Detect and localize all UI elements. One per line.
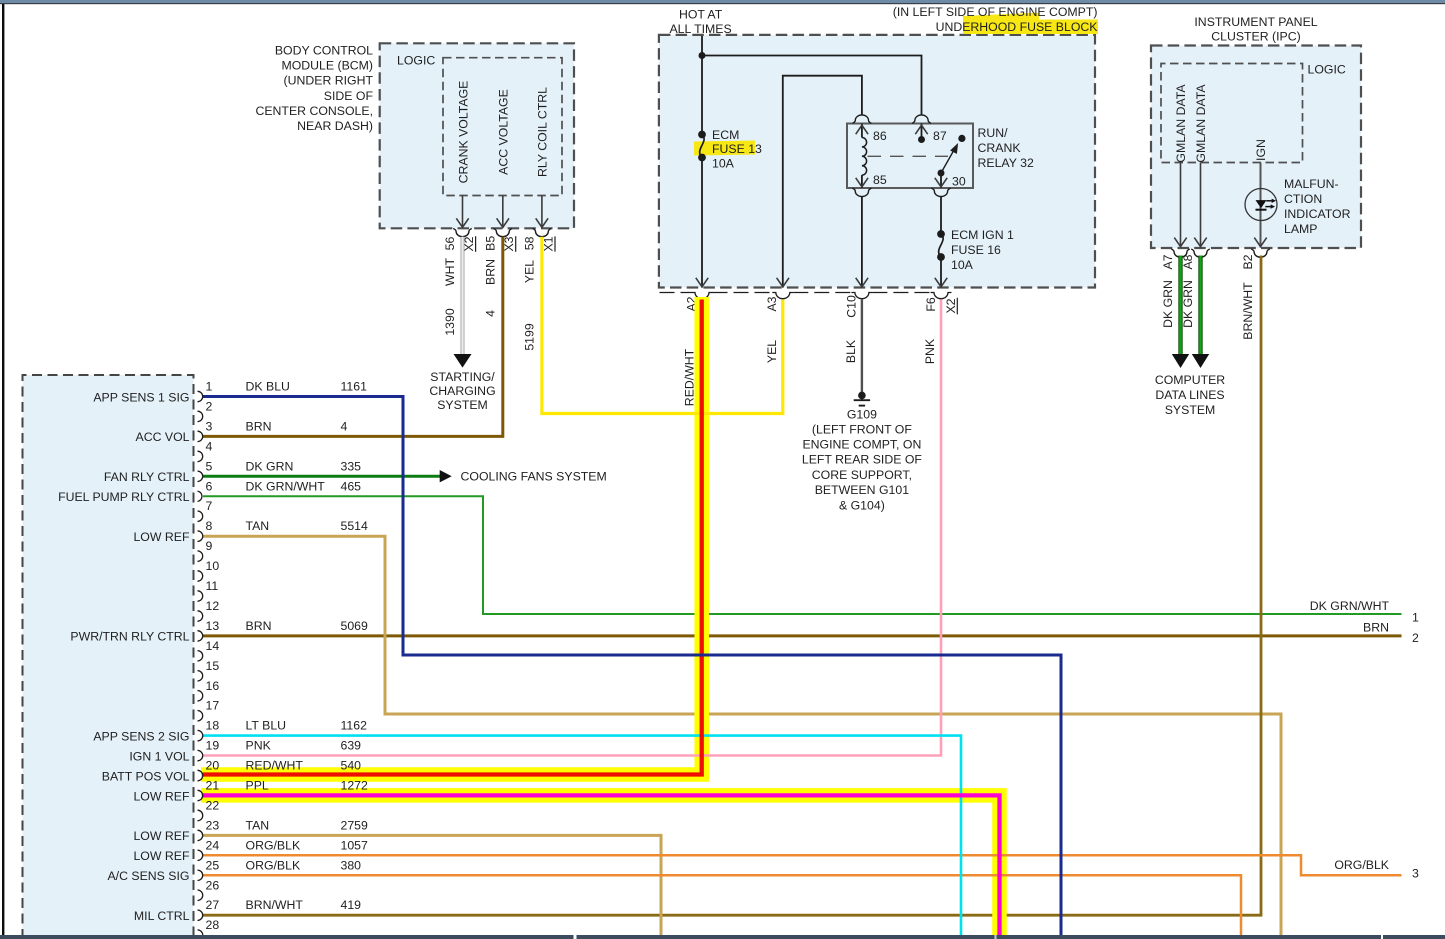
svg-text:CRANK: CRANK: [978, 141, 1022, 155]
svg-text:DK GRN/WHT: DK GRN/WHT: [246, 479, 326, 493]
svg-text:DATA LINES: DATA LINES: [1155, 388, 1224, 402]
svg-text:DK GRN/WHT: DK GRN/WHT: [1310, 599, 1390, 613]
wire BLK to ground G109: [861, 300, 863, 393]
relay bottom connector cups: [852, 188, 871, 196]
IPC instrument panel cluster box: [1151, 46, 1361, 249]
svg-text:RUN/: RUN/: [978, 126, 1009, 140]
svg-text:STARTING/: STARTING/: [430, 370, 495, 384]
wire TAN 2759 pin23: [203, 835, 661, 935]
svg-text:419: 419: [341, 898, 362, 912]
svg-text:27: 27: [206, 898, 220, 912]
svg-text:ACC VOL: ACC VOL: [136, 430, 190, 444]
svg-text:ENGINE COMPT, ON: ENGINE COMPT, ON: [802, 438, 921, 452]
IPC logic inner box: [1161, 64, 1303, 163]
svg-text:3: 3: [1412, 867, 1419, 881]
svg-text:5069: 5069: [341, 619, 369, 633]
svg-text:IGN: IGN: [1254, 139, 1268, 161]
svg-text:540: 540: [341, 759, 362, 773]
svg-text:LOW REF: LOW REF: [133, 530, 190, 544]
fuse block bottom connector dashed line: [660, 292, 692, 294]
IPC connector cups A7 A8 B2: [1171, 249, 1190, 257]
IPC internal wires A7 A8: [1180, 163, 1182, 248]
frame left border line: [2, 4, 4, 936]
svg-text:LOGIC: LOGIC: [1308, 63, 1346, 77]
svg-text:5514: 5514: [341, 519, 369, 533]
wire BRN 4 BCM X3 to pin3: [203, 237, 503, 437]
svg-text:58: 58: [522, 236, 536, 250]
svg-text:20: 20: [206, 759, 220, 773]
svg-text:10A: 10A: [951, 258, 974, 272]
svg-text:380: 380: [341, 858, 362, 872]
svg-text:5: 5: [206, 459, 213, 473]
svg-text:15: 15: [206, 659, 220, 673]
wire BRN/WHT 419 pin27 to IPC B2: [203, 256, 1261, 916]
svg-text:8: 8: [206, 519, 213, 533]
svg-text:19: 19: [206, 739, 220, 753]
svg-text:ACC VOLTAGE: ACC VOLTAGE: [497, 89, 511, 175]
svg-text:BRN: BRN: [246, 419, 272, 433]
svg-text:DK GRN: DK GRN: [246, 459, 294, 473]
svg-text:GMLAN DATA: GMLAN DATA: [1174, 84, 1188, 163]
GMLAN wires to computer data lines system: [1178, 256, 1182, 355]
svg-text:ORG/BLK: ORG/BLK: [246, 858, 301, 872]
svg-text:9: 9: [206, 539, 213, 553]
svg-text:1057: 1057: [341, 838, 369, 852]
svg-text:BRN/WHT: BRN/WHT: [1241, 282, 1255, 340]
svg-text:4: 4: [483, 310, 497, 317]
svg-text:6: 6: [206, 479, 213, 493]
UNDERHOOD FUSE BLOCK highlight: [963, 20, 1098, 35]
svg-text:B5: B5: [483, 236, 497, 251]
svg-text:APP SENS 2 SIG: APP SENS 2 SIG: [93, 729, 189, 743]
cooling fans system arrow: [440, 470, 452, 482]
svg-text:23: 23: [206, 818, 220, 832]
svg-text:2759: 2759: [341, 818, 369, 832]
wire ORG/BLK 380 pin25: [203, 875, 1241, 935]
svg-text:RELAY 32: RELAY 32: [978, 156, 1034, 170]
svg-text:PWR/TRN RLY CTRL: PWR/TRN RLY CTRL: [70, 630, 189, 644]
wire fuse13 to A2: [701, 158, 703, 288]
svg-text:UNDERHOOD FUSE BLOCK: UNDERHOOD FUSE BLOCK: [936, 20, 1099, 34]
svg-text:22: 22: [206, 798, 220, 812]
svg-text:DK BLU: DK BLU: [246, 380, 290, 394]
svg-text:PNK: PNK: [246, 739, 272, 753]
svg-text:FUSE 13: FUSE 13: [712, 142, 762, 156]
svg-text:LOGIC: LOGIC: [397, 54, 435, 68]
svg-text:BRN: BRN: [246, 619, 272, 633]
wire BRN 5069 pin13 to right edge: [203, 634, 1402, 637]
ECM pin cavity arcs 1-28: [198, 391, 203, 401]
svg-text:MODULE (BCM): MODULE (BCM): [281, 59, 373, 73]
svg-text:56: 56: [443, 237, 457, 251]
svg-text:BATT POS VOL: BATT POS VOL: [102, 769, 190, 783]
svg-text:ECM IGN 1: ECM IGN 1: [951, 228, 1014, 242]
svg-text:& G104): & G104): [839, 498, 885, 512]
wire WHT 1390 BCM X2 to starting/charging: [461, 237, 465, 354]
svg-text:24: 24: [206, 838, 220, 852]
IPC IGN wire: [1260, 163, 1262, 248]
svg-text:639: 639: [341, 739, 362, 753]
relay switch armature: [938, 170, 945, 177]
svg-text:HOT AT: HOT AT: [679, 8, 723, 22]
svg-text:2: 2: [1412, 631, 1419, 645]
wire relay 85 to C10: [861, 197, 863, 288]
svg-text:ORG/BLK: ORG/BLK: [246, 838, 301, 852]
fuse F16 ECM IGN 1 FUSE 16 10A: [937, 230, 945, 238]
BCM module box: [380, 43, 574, 228]
svg-text:LOW REF: LOW REF: [133, 849, 190, 863]
wire from HOT AT into fuse block: [701, 36, 703, 135]
svg-text:FUEL PUMP RLY CTRL: FUEL PUMP RLY CTRL: [58, 490, 190, 504]
malfunction indicator lamp symbol: [1245, 189, 1277, 221]
svg-text:26: 26: [206, 878, 220, 892]
svg-text:CLUSTER (IPC): CLUSTER (IPC): [1211, 30, 1301, 44]
svg-text:4: 4: [206, 439, 213, 453]
svg-text:A/C SENS SIG: A/C SENS SIG: [107, 869, 189, 883]
svg-text:10: 10: [206, 559, 220, 573]
frame top bar: [0, 0, 1445, 3]
wire junction to relay pin 87: [702, 56, 922, 115]
svg-text:86: 86: [873, 129, 887, 143]
svg-text:17: 17: [206, 699, 220, 713]
svg-text:YEL: YEL: [765, 340, 779, 363]
svg-text:ECM: ECM: [712, 128, 739, 142]
svg-text:3: 3: [206, 419, 213, 433]
wire DK BLU 1161 pin1: [203, 397, 1061, 936]
wire DK GRN/WHT 465 pin6 to right edge: [203, 496, 1402, 614]
svg-text:FAN RLY CTRL: FAN RLY CTRL: [104, 470, 190, 484]
svg-text:2: 2: [206, 399, 213, 413]
svg-text:LAMP: LAMP: [1284, 222, 1318, 236]
wire TAN 5514 pin8: [203, 536, 1281, 935]
svg-text:12: 12: [206, 599, 220, 613]
svg-text:25: 25: [206, 858, 220, 872]
svg-text:DK GRN: DK GRN: [1161, 280, 1175, 328]
svg-text:PNK: PNK: [923, 338, 937, 364]
BCM logic inner box: [443, 58, 562, 196]
wire fuse16 to F6: [940, 257, 942, 288]
svg-text:(UNDER RIGHT: (UNDER RIGHT: [284, 74, 374, 88]
run/crank relay 32 box: [847, 124, 973, 189]
relay actuation dashed line: [868, 155, 949, 157]
svg-text:CORE SUPPORT,: CORE SUPPORT,: [812, 468, 912, 482]
svg-text:RLY COIL CTRL: RLY COIL CTRL: [536, 87, 550, 177]
svg-text:11: 11: [206, 579, 219, 593]
svg-text:CHARGING: CHARGING: [429, 384, 495, 398]
svg-text:10A: 10A: [712, 157, 735, 171]
svg-text:LOW REF: LOW REF: [133, 829, 190, 843]
svg-text:B2: B2: [1241, 254, 1255, 269]
ECM connector box: [23, 375, 194, 939]
svg-text:1161: 1161: [341, 380, 368, 394]
wire relay 30 to fuse16: [940, 197, 942, 235]
svg-text:X2: X2: [944, 298, 958, 313]
svg-text:F6: F6: [924, 297, 938, 312]
svg-text:87: 87: [933, 129, 947, 143]
svg-text:X1: X1: [541, 236, 555, 251]
svg-text:SIDE OF: SIDE OF: [324, 89, 374, 103]
svg-text:85: 85: [873, 173, 887, 187]
frame bottom bar: [0, 935, 1445, 939]
svg-text:1: 1: [1412, 611, 1419, 625]
svg-text:CENTER CONSOLE,: CENTER CONSOLE,: [255, 104, 373, 118]
svg-text:CTION: CTION: [1284, 192, 1322, 206]
svg-text:18: 18: [206, 719, 220, 733]
svg-text:INSTRUMENT PANEL: INSTRUMENT PANEL: [1194, 15, 1317, 29]
svg-text:INDICATOR: INDICATOR: [1284, 207, 1351, 221]
svg-text:BETWEEN G101: BETWEEN G101: [815, 483, 909, 497]
svg-text:28: 28: [206, 918, 220, 932]
svg-text:SYSTEM: SYSTEM: [437, 398, 488, 412]
wire branch A3 to relay pin 86: [783, 76, 862, 288]
svg-text:1: 1: [206, 380, 213, 394]
svg-text:TAN: TAN: [246, 519, 270, 533]
svg-text:LT BLU: LT BLU: [246, 719, 287, 733]
svg-text:YEL: YEL: [522, 260, 536, 283]
svg-text:RED/WHT: RED/WHT: [246, 759, 304, 773]
svg-text:MIL CTRL: MIL CTRL: [134, 909, 190, 923]
PPL 1272 yellow halo: [201, 795, 1000, 935]
fuse F13 ECM FUSE 13 10A: [694, 140, 755, 155]
svg-text:SYSTEM: SYSTEM: [1165, 403, 1216, 417]
wire LT BLU 1162 pin18: [203, 736, 961, 935]
svg-text:GMLAN DATA: GMLAN DATA: [1194, 84, 1208, 163]
svg-text:A7: A7: [1161, 254, 1175, 269]
underhood fuse block box: [659, 35, 1095, 288]
svg-text:ORG/BLK: ORG/BLK: [1334, 858, 1389, 872]
svg-text:COMPUTER: COMPUTER: [1155, 373, 1225, 387]
ground G109 symbol: [858, 392, 866, 400]
svg-text:CRANK VOLTAGE: CRANK VOLTAGE: [456, 81, 470, 184]
svg-text:13: 13: [206, 619, 220, 633]
wire DK GRN 335 pin5 to cooling fans: [203, 475, 440, 478]
svg-text:A3: A3: [765, 296, 779, 311]
relay pin 87 stub: [921, 124, 923, 140]
svg-text:1162: 1162: [341, 719, 368, 733]
svg-text:BRN/WHT: BRN/WHT: [246, 898, 304, 912]
svg-text:DK GRN: DK GRN: [1181, 280, 1195, 328]
svg-text:ALL TIMES: ALL TIMES: [669, 22, 731, 36]
relay top connector cups: [852, 115, 871, 123]
relay coil pin 86 to 85: [861, 124, 863, 138]
svg-text:COOLING FANS SYSTEM: COOLING FANS SYSTEM: [461, 470, 607, 484]
svg-text:BRN: BRN: [483, 259, 497, 285]
svg-text:14: 14: [206, 639, 220, 653]
svg-text:BRN: BRN: [1363, 621, 1389, 635]
svg-text:1272: 1272: [341, 779, 369, 793]
wire YEL 5199 BCM X1 to A3: [542, 237, 783, 414]
svg-text:(IN LEFT SIDE OF ENGINE COMPT): (IN LEFT SIDE OF ENGINE COMPT): [893, 5, 1098, 19]
BCM internal wires with arrows: [462, 196, 464, 229]
svg-text:C10: C10: [844, 295, 858, 318]
svg-text:NEAR DASH): NEAR DASH): [297, 119, 373, 133]
starting/charging system arrow: [454, 354, 472, 368]
RED/WHT 540 yellow halo: [201, 297, 702, 775]
RED/WHT 540 red core: [203, 300, 702, 775]
PPL 1272 magenta core: [203, 795, 1000, 935]
svg-text:MALFUN-: MALFUN-: [1284, 177, 1339, 191]
wire PNK 639 pin19 to F6: [203, 300, 941, 756]
svg-text:LEFT REAR SIDE OF: LEFT REAR SIDE OF: [802, 453, 923, 467]
svg-text:G109: G109: [847, 408, 877, 422]
svg-text:465: 465: [341, 479, 362, 493]
svg-text:335: 335: [341, 459, 362, 473]
relay pin 30 stub: [940, 173, 942, 188]
svg-text:APP SENS 1 SIG: APP SENS 1 SIG: [93, 390, 189, 404]
svg-text:4: 4: [341, 419, 348, 433]
svg-text:16: 16: [206, 679, 220, 693]
svg-text:A8: A8: [1181, 254, 1195, 269]
svg-text:(LEFT FRONT OF: (LEFT FRONT OF: [812, 422, 912, 436]
wire ORG/BLK 1057 pin24 to right edge: [203, 855, 1402, 875]
svg-text:21: 21: [206, 779, 220, 793]
svg-text:5199: 5199: [522, 323, 536, 351]
svg-text:PPL: PPL: [246, 779, 269, 793]
svg-text:TAN: TAN: [246, 818, 270, 832]
svg-text:FUSE 16: FUSE 16: [951, 243, 1001, 257]
node junction at top feed: [699, 52, 706, 59]
svg-text:LOW REF: LOW REF: [133, 789, 190, 803]
svg-text:WHT: WHT: [443, 258, 457, 286]
svg-text:IGN 1 VOL: IGN 1 VOL: [129, 749, 189, 763]
svg-text:1390: 1390: [443, 308, 457, 336]
svg-text:RED/WHT: RED/WHT: [682, 348, 696, 406]
svg-text:BLK: BLK: [844, 339, 858, 363]
fuse block connector cups A2 A3 C10 F6: [692, 293, 713, 299]
BCM connector cups X2 X3 X1: [453, 229, 472, 237]
svg-text:7: 7: [206, 499, 213, 513]
svg-text:30: 30: [952, 175, 966, 189]
svg-text:BODY CONTROL: BODY CONTROL: [275, 44, 373, 58]
